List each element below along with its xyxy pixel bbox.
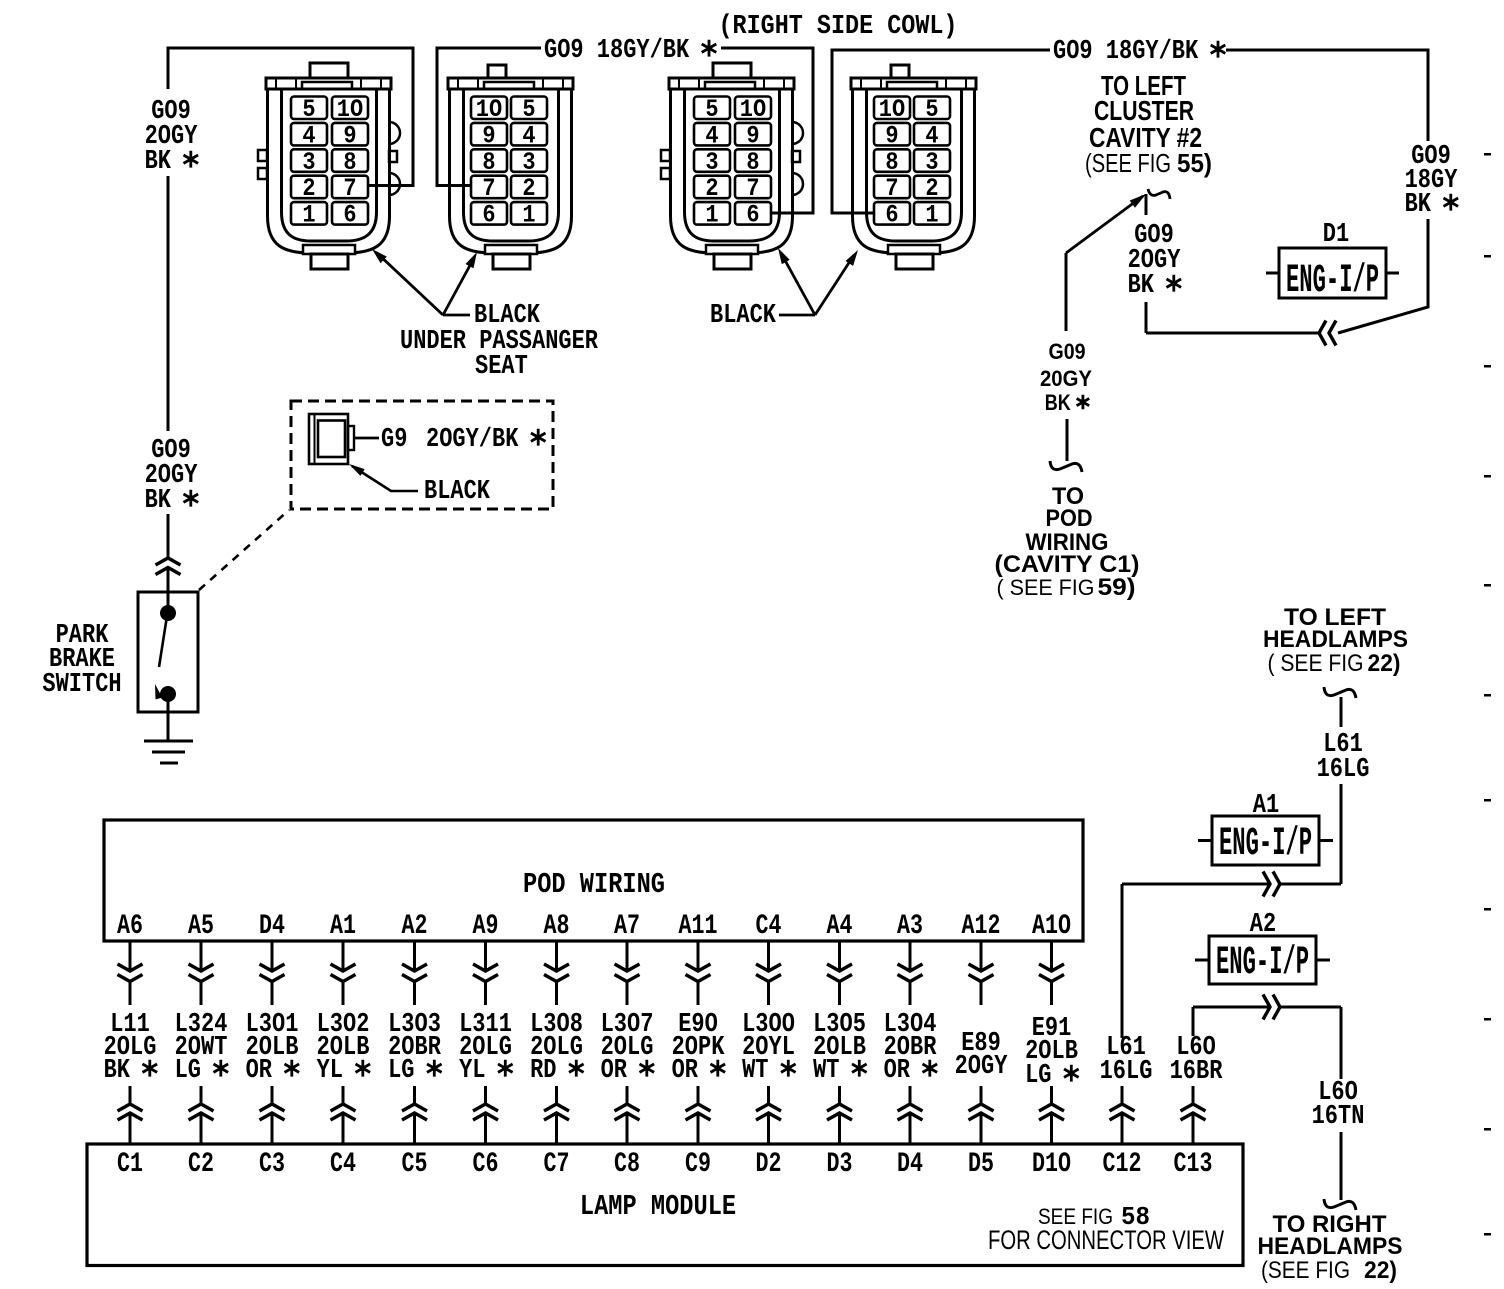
svg-text:1: 1 xyxy=(925,201,938,230)
svg-text:1O: 1O xyxy=(476,95,502,124)
connector C4 (10-pin) xyxy=(851,65,976,269)
svg-text:D3: D3 xyxy=(827,1149,853,1180)
wire L308 from pod pin A8 xyxy=(555,941,558,971)
svg-text:C5: C5 xyxy=(402,1149,428,1180)
wire to lamp pin D10 xyxy=(1050,1086,1053,1104)
svg-text:8: 8 xyxy=(343,148,356,177)
svg-text:A8: A8 xyxy=(544,911,570,942)
wire to lamp pin C2 xyxy=(200,1086,203,1104)
svg-text:A2: A2 xyxy=(402,911,428,942)
svg-text:(SEE FIG: (SEE FIG xyxy=(1261,1257,1350,1284)
svg-text:POD WIRING: POD WIRING xyxy=(523,868,665,901)
wire A2 horizontal xyxy=(1193,1006,1270,1009)
svg-text:8: 8 xyxy=(885,148,898,177)
wire to lamp pin C5 xyxy=(413,1086,416,1104)
svg-text:POD: POD xyxy=(1046,505,1093,532)
svg-text:ENG-I/P: ENG-I/P xyxy=(1216,941,1309,986)
svg-text:C7: C7 xyxy=(544,1149,570,1180)
svg-text:SEAT: SEAT xyxy=(475,352,528,382)
svg-text:2OGY: 2OGY xyxy=(955,1052,1008,1082)
wire G09 vertical xyxy=(167,176,170,431)
wire E89 from pod pin A12 xyxy=(980,941,983,971)
svg-text:A11: A11 xyxy=(679,911,718,942)
svg-text:C1: C1 xyxy=(117,1149,143,1180)
svg-text:6: 6 xyxy=(482,201,495,230)
wire down to pod wiring note xyxy=(1065,253,1068,331)
svg-text:A1: A1 xyxy=(330,911,356,942)
wire L300 from pod pin C4 xyxy=(767,941,770,971)
in-line connector A1 chevrons xyxy=(1263,872,1270,897)
wire across top right xyxy=(1226,50,1428,141)
svg-text:A7: A7 xyxy=(614,911,640,942)
in-line connector A2 chevrons xyxy=(1263,995,1270,1020)
svg-text:3: 3 xyxy=(705,148,718,177)
svg-text:A3: A3 xyxy=(897,911,923,942)
svg-text:G09: G09 xyxy=(1049,339,1086,364)
wire E91 from pod pin A10 xyxy=(1050,941,1053,971)
svg-text:HEADLAMPS: HEADLAMPS xyxy=(1258,1233,1403,1260)
svg-text:1O: 1O xyxy=(740,95,766,124)
park brake switch xyxy=(138,592,198,712)
svg-text:G9: G9 xyxy=(381,425,407,455)
svg-text:59): 59) xyxy=(1098,574,1136,601)
svg-text:1O: 1O xyxy=(337,95,363,124)
svg-text:5: 5 xyxy=(302,95,315,124)
svg-text:5: 5 xyxy=(925,95,938,124)
wire L60 down to right headlamps xyxy=(1340,1007,1343,1079)
svg-text:1: 1 xyxy=(705,201,718,230)
svg-text:9: 9 xyxy=(885,121,898,150)
svg-text:16LG: 16LG xyxy=(1317,755,1370,785)
connector C2 (10-pin) xyxy=(448,65,573,269)
svg-text:FOR CONNECTOR VIEW: FOR CONNECTOR VIEW xyxy=(988,1225,1224,1255)
wire to lamp pin C9 xyxy=(697,1086,700,1104)
wire L307 from pod pin A7 xyxy=(626,941,629,971)
wire to G9 label xyxy=(354,437,379,440)
svg-text:LAMP MODULE: LAMP MODULE xyxy=(580,1190,736,1223)
svg-text:7: 7 xyxy=(885,174,898,203)
wire to lamp pin C3 xyxy=(271,1086,274,1104)
connector C1 (10-pin) xyxy=(258,63,400,269)
wire E90 from pod pin A11 xyxy=(697,941,700,971)
svg-text:A1O: A1O xyxy=(1032,911,1071,942)
connector C3 (10-pin) xyxy=(661,63,803,269)
svg-text:16LG: 16LG xyxy=(1100,1057,1153,1087)
svg-text:C6: C6 xyxy=(473,1149,499,1180)
svg-text:9: 9 xyxy=(482,121,495,150)
svg-text:D4: D4 xyxy=(897,1149,923,1180)
svg-text:7: 7 xyxy=(343,174,356,203)
svg-text:16TN: 16TN xyxy=(1312,1102,1365,1132)
wire L324 from pod pin A5 xyxy=(200,941,203,971)
svg-text:4: 4 xyxy=(925,121,938,150)
svg-text:2OGY/BK: 2OGY/BK xyxy=(426,425,545,455)
svg-text:2: 2 xyxy=(302,174,315,203)
wire to lamp pin C4 xyxy=(342,1086,345,1104)
box LAMP MODULE xyxy=(87,1144,1243,1266)
svg-text:( SEE FIG: ( SEE FIG xyxy=(1268,650,1364,677)
wire L304 from pod pin A3 xyxy=(909,941,912,971)
wire L61 up to left headlamps xyxy=(1340,784,1343,884)
label BLACK with arrow xyxy=(352,466,418,491)
svg-text:A9: A9 xyxy=(473,911,499,942)
svg-text:22): 22) xyxy=(1364,1257,1397,1284)
wire G09 20GY BK* horizontal xyxy=(1146,332,1319,335)
svg-text:2: 2 xyxy=(925,174,938,203)
wire L302 from pod pin A1 xyxy=(342,941,345,971)
svg-text:C4: C4 xyxy=(756,911,782,942)
wire L11 from pod pin A6 xyxy=(129,941,132,971)
wire L303 from pod pin A2 xyxy=(413,941,416,971)
wire G09 18GY/BK* from connector C4 pin 6 xyxy=(832,50,1050,213)
wire L311 from pod pin A9 xyxy=(484,941,487,971)
svg-text:8: 8 xyxy=(482,148,495,177)
wire to lamp pin D2 xyxy=(767,1086,770,1104)
in-line connector chevrons (to D1) xyxy=(1319,321,1326,346)
ground symbol xyxy=(167,700,170,741)
svg-text:2: 2 xyxy=(705,174,718,203)
wire to lamp pin C7 xyxy=(555,1086,558,1104)
wire G09 18GY/BK* from connector C2 pin 7 xyxy=(437,48,541,186)
svg-text:5: 5 xyxy=(522,95,535,124)
wire G09 20GY BK* from connector C1 pin 7 xyxy=(168,48,413,186)
svg-text:4: 4 xyxy=(522,121,535,150)
wire to lamp pin D4 xyxy=(909,1086,912,1104)
svg-text:C12: C12 xyxy=(1103,1149,1142,1180)
svg-text:HEADLAMPS: HEADLAMPS xyxy=(1263,626,1408,653)
svg-text:9: 9 xyxy=(746,121,759,150)
svg-text:C8: C8 xyxy=(614,1149,640,1180)
svg-text:C2: C2 xyxy=(188,1149,214,1180)
wire to connector C3 pin 6 xyxy=(721,48,813,213)
svg-text:7: 7 xyxy=(482,174,495,203)
svg-text:D4: D4 xyxy=(259,911,285,942)
svg-text:BLACK: BLACK xyxy=(424,477,491,507)
svg-text:A6: A6 xyxy=(117,911,143,942)
svg-text:1O: 1O xyxy=(879,95,905,124)
svg-text:D1O: D1O xyxy=(1032,1149,1071,1180)
svg-text:3: 3 xyxy=(925,148,938,177)
wire end curl xyxy=(1050,461,1082,472)
svg-text:C9: C9 xyxy=(685,1149,711,1180)
wire A1 horizontal xyxy=(1122,883,1270,886)
wire down right edge xyxy=(1338,219,1428,333)
box POD WIRING xyxy=(104,820,1083,941)
dashed leader to switch xyxy=(199,510,289,590)
wire stub to cluster arrow xyxy=(1145,194,1148,215)
svg-text:C4: C4 xyxy=(330,1149,356,1180)
svg-text:C3: C3 xyxy=(259,1149,285,1180)
label BLACK UNDER PASSANGER SEAT with arrows xyxy=(443,314,470,317)
svg-text:3: 3 xyxy=(302,148,315,177)
wire to lamp pin C6 xyxy=(484,1086,487,1104)
svg-text:20GY: 20GY xyxy=(1040,366,1092,391)
dashed detail box xyxy=(291,401,553,509)
svg-text:(SEE FIG: (SEE FIG xyxy=(1085,148,1171,178)
wire to lamp pin D3 xyxy=(838,1086,841,1104)
svg-text:GO9 18GY/BK: GO9 18GY/BK xyxy=(1053,37,1225,67)
svg-text:A12: A12 xyxy=(962,911,1001,942)
svg-text:4: 4 xyxy=(302,121,315,150)
svg-text:1: 1 xyxy=(302,201,315,230)
svg-text:5: 5 xyxy=(705,95,718,124)
svg-text:D2: D2 xyxy=(756,1149,782,1180)
svg-text:9: 9 xyxy=(343,121,356,150)
svg-text:C13: C13 xyxy=(1174,1149,1213,1180)
svg-text:3: 3 xyxy=(522,148,535,177)
svg-text:SWITCH: SWITCH xyxy=(42,670,121,700)
svg-text:BK: BK xyxy=(1045,390,1071,415)
svg-text:1: 1 xyxy=(522,201,535,230)
svg-text:55): 55) xyxy=(1177,148,1212,178)
svg-text:( SEE FIG: ( SEE FIG xyxy=(997,575,1095,600)
wire to lamp pin C8 xyxy=(626,1086,629,1104)
svg-text:6: 6 xyxy=(746,201,759,230)
svg-text:D1: D1 xyxy=(1323,220,1349,250)
svg-text:BLACK: BLACK xyxy=(710,301,777,331)
svg-text:2: 2 xyxy=(522,174,535,203)
svg-text:8: 8 xyxy=(746,148,759,177)
wire G09 to park brake switch xyxy=(167,514,170,558)
svg-text:GO9 18GY/BK: GO9 18GY/BK xyxy=(544,36,716,66)
wire L301 from pod pin D4 xyxy=(271,941,274,971)
wire L305 from pod pin A4 xyxy=(838,941,841,971)
wire to lamp pin D5 xyxy=(980,1086,983,1104)
svg-text:22): 22) xyxy=(1368,650,1401,677)
svg-text:ENG-I/P: ENG-I/P xyxy=(1286,259,1379,304)
svg-text:7: 7 xyxy=(746,174,759,203)
svg-text:ENG-I/P: ENG-I/P xyxy=(1219,822,1312,867)
svg-text:16BR: 16BR xyxy=(1170,1057,1223,1087)
svg-text:6: 6 xyxy=(343,201,356,230)
svg-text:6: 6 xyxy=(885,201,898,230)
connector G9 (single cavity) xyxy=(309,414,348,464)
svg-text:A5: A5 xyxy=(188,911,214,942)
svg-text:(RIGHT SIDE COWL): (RIGHT SIDE COWL) xyxy=(719,12,958,42)
wire to lamp pin C1 xyxy=(129,1086,132,1104)
svg-text:4: 4 xyxy=(705,121,718,150)
arrow to left cluster xyxy=(1066,196,1143,253)
svg-text:D5: D5 xyxy=(968,1149,994,1180)
svg-text:A4: A4 xyxy=(827,911,853,942)
in-line connector chevrons xyxy=(156,558,181,565)
